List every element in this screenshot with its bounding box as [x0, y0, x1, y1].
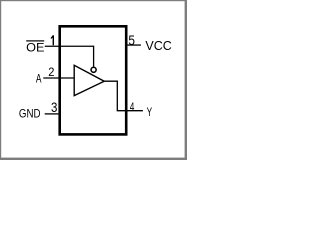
- frame border top: [0, 0, 187, 1]
- svg-text:VCC: VCC: [145, 38, 171, 53]
- svg-text:GND: GND: [19, 107, 41, 121]
- overline for OE: [26, 40, 44, 41]
- wire pin 5 VCC stub: [128, 44, 141, 46]
- active-low enable bubble: [91, 67, 96, 72]
- frame border left: [0, 0, 1, 160]
- pin number 1: [51, 35, 54, 45]
- frame border right: [185, 0, 187, 160]
- svg-text:Y: Y: [147, 105, 153, 119]
- svg-text:4: 4: [130, 100, 135, 114]
- wire pin 3 GND stub: [45, 113, 59, 115]
- svg-text:5: 5: [128, 32, 135, 48]
- IC package body U1: [60, 26, 127, 134]
- svg-text:OE: OE: [26, 40, 44, 54]
- wire pin 1 OE lead and internal run to bubble: [45, 46, 94, 66]
- buffer triangle U1: [74, 65, 104, 95]
- wire buffer output to pin 4 Y: [104, 81, 143, 111]
- wire pin 2 A lead into buffer input: [43, 77, 74, 79]
- svg-text:A: A: [36, 72, 42, 86]
- frame border bottom: [0, 158, 187, 160]
- svg-text:3: 3: [51, 99, 58, 115]
- svg-text:2: 2: [48, 65, 54, 79]
